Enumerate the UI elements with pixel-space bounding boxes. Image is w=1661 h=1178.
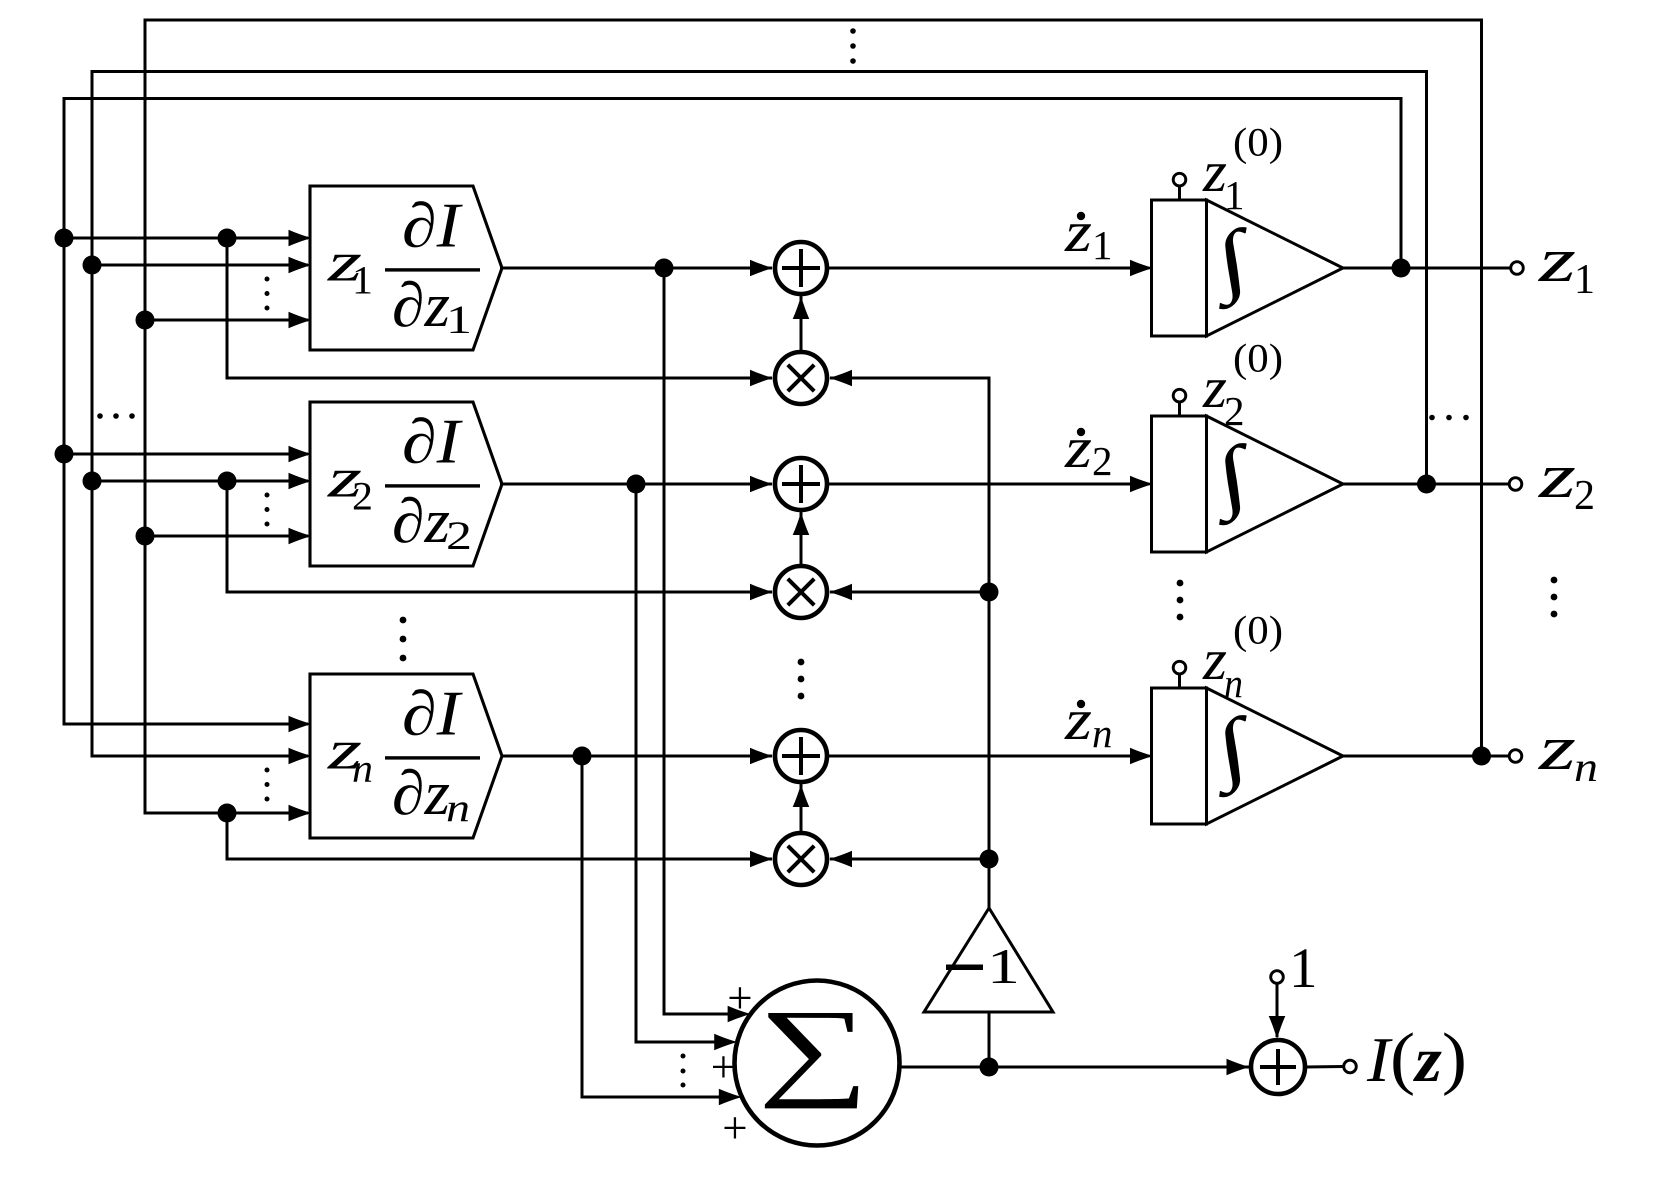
- cdots left side between feedback verticals: [97, 413, 103, 419]
- wire sum tap 1 down to summer: [664, 268, 739, 1014]
- svg-text:∂I: ∂I: [402, 407, 463, 477]
- svg-text:n: n: [1092, 710, 1113, 756]
- wire branch z2 into block F1 input 2: [92, 264, 308, 267]
- arrowhead into adder A0 top: [1269, 1016, 1286, 1039]
- svg-text:1: 1: [1224, 172, 1245, 218]
- wire Un output to terminal zn: [1343, 755, 1510, 758]
- junction dot summer output at inverter: [980, 1058, 999, 1077]
- junction dot z1 branch at row 1 input 1: [55, 229, 74, 248]
- wire branch z1 into block F2 input 1: [64, 453, 308, 456]
- svg-text:z: z: [1538, 440, 1577, 511]
- arrowhead into M2 right: [829, 584, 852, 601]
- arrowhead into block F2 input 2: [289, 473, 312, 490]
- wire from inverter up and into M1 right input: [830, 378, 989, 908]
- wire sum tap 2 down to summer: [636, 484, 725, 1042]
- wire M2 up to A2: [800, 512, 803, 566]
- svg-text:n: n: [1574, 745, 1598, 791]
- junction dot zn branch at row 1 input 3: [136, 311, 155, 330]
- arrowhead into multiplier M1 left: [750, 370, 773, 387]
- wire sum tap n down to summer: [582, 756, 730, 1097]
- adder A2 circle: [775, 458, 827, 510]
- wire A2 output to integrator U2: [828, 483, 1150, 486]
- initial condition terminal of U2: [1173, 389, 1186, 402]
- wire feedback z2: up from integrator output, across top, down left side into block Fn input 2: [92, 72, 1427, 757]
- wire branch zn into block F2 input 3: [145, 535, 308, 538]
- wire Mn up to An: [800, 784, 803, 833]
- junction dot inverter line at Mn row: [980, 850, 999, 869]
- vdots between Fn inputs: [265, 768, 270, 773]
- wire A1 output to integrator U1: [828, 267, 1150, 270]
- fraction bar in F2: [385, 484, 480, 487]
- arrowhead into adder A0 left: [1227, 1059, 1250, 1076]
- svg-text:n: n: [446, 785, 470, 830]
- terminal z2: [1509, 478, 1522, 491]
- svg-text:+: +: [722, 1103, 747, 1153]
- junction dot F2 output tap to sum: [627, 475, 646, 494]
- svg-text:1: 1: [987, 938, 1020, 994]
- multiplier M2 circle: [775, 566, 827, 618]
- vdots summer inputs: [681, 1054, 686, 1059]
- arrowhead into integrator Un: [1130, 748, 1153, 765]
- arrowhead into An bottom: [793, 784, 810, 807]
- terminal I(z) output: [1344, 1060, 1357, 1073]
- svg-text:z: z: [1538, 712, 1577, 783]
- arrowhead into multiplier Mn left: [750, 851, 773, 868]
- block F2: z2 dI/dz2 pentagon: [310, 402, 502, 566]
- junction dot U1 output feedback: [1392, 259, 1411, 278]
- arrowhead into A2 bottom: [793, 512, 810, 535]
- wire M1 up to A1: [800, 296, 803, 352]
- fraction bar in F1: [385, 268, 480, 271]
- wire branch into Mn right input: [830, 858, 989, 861]
- junction dot F1 output tap to sum: [655, 259, 674, 278]
- arrowhead into M1 right: [829, 370, 852, 387]
- arrowhead into block F1 input 3: [289, 312, 312, 329]
- arrowhead into block F1 input 1: [289, 230, 312, 247]
- multiplier M2 cross: [788, 579, 814, 605]
- arrowhead into adder A1 left: [750, 260, 773, 277]
- arrowhead into Mn right: [829, 851, 852, 868]
- svg-text:2: 2: [1092, 438, 1113, 484]
- junction dot z2 branch at row 1 input 2: [83, 256, 102, 275]
- fraction bar in Fn: [385, 756, 480, 759]
- multiplier Mn cross: [788, 846, 814, 872]
- label -1 in inverter: [946, 965, 983, 971]
- adder A1 plus sign: [782, 249, 820, 287]
- junction dot Un output feedback: [1472, 747, 1491, 766]
- initial condition terminal of U1: [1173, 173, 1186, 186]
- vdots between blocks F2 and Fn: [400, 617, 407, 624]
- wire branch z1 into block F1 input 1: [64, 237, 308, 240]
- multiplier Mn circle: [775, 833, 827, 885]
- arrowhead into summer input 3: [719, 1089, 742, 1106]
- svg-text:2: 2: [1224, 388, 1245, 434]
- summer S circle: [735, 981, 900, 1146]
- junction dot tap z1 to multiplier M1: [218, 229, 237, 248]
- wire branch zn into block F1 input 3: [145, 319, 308, 322]
- svg-text:∂I: ∂I: [402, 191, 463, 261]
- svg-text:z: z: [1064, 415, 1092, 480]
- terminal constant 1: [1271, 971, 1284, 984]
- terminal z1: [1511, 262, 1524, 275]
- svg-text:n: n: [1224, 660, 1243, 706]
- wire F1 output to adder A1: [500, 267, 772, 270]
- junction dot zn branch at row 2 input 3: [136, 527, 155, 546]
- svg-text:1: 1: [352, 258, 373, 303]
- arrowhead into adder An left: [750, 748, 773, 765]
- svg-text:2: 2: [446, 513, 472, 558]
- wire An output to integrator Un: [828, 755, 1150, 758]
- arrowhead feedback z2 into block Fn: [289, 748, 312, 765]
- multiplier M1 circle: [775, 352, 827, 404]
- terminal zn: [1509, 750, 1522, 763]
- vdots between adder rows 2 and n: [798, 659, 805, 666]
- arrowhead feedback zn into block Fn: [289, 805, 312, 822]
- arrowhead into multiplier M2 left: [750, 584, 773, 601]
- wire branch z2 into block F2 input 2: [92, 480, 308, 483]
- svg-text:I(z): I(z): [1366, 1020, 1467, 1097]
- vdots between F1 inputs: [265, 277, 270, 282]
- arrowhead into A1 bottom: [793, 296, 810, 319]
- arrowhead into integrator U1: [1130, 260, 1153, 277]
- svg-text:∂z: ∂z: [392, 270, 450, 340]
- wire U2 output to terminal z2: [1343, 483, 1510, 486]
- integrator U2 body: [1152, 416, 1207, 552]
- svg-text:∂I: ∂I: [402, 679, 463, 749]
- arrowhead into integrator U2: [1130, 476, 1153, 493]
- adder An circle: [775, 730, 827, 782]
- junction dot z1 branch at row 2 input 1: [55, 445, 74, 464]
- svg-text:2: 2: [352, 474, 373, 519]
- svg-text:+: +: [711, 1042, 736, 1092]
- svg-text:∂z: ∂z: [392, 758, 450, 828]
- arrowhead into block F2 input 1: [289, 446, 312, 463]
- svg-text:(0): (0): [1233, 336, 1283, 381]
- block Fn: zn dI/dzn pentagon: [310, 674, 502, 838]
- wire feedback z1: up from integrator output, across top, down left side into block Fn input 1: [64, 99, 1401, 725]
- wire Fn output to adder An: [501, 755, 772, 758]
- arrowhead feedback z1 into block Fn: [289, 716, 312, 733]
- wire constant 1 into adder A0: [1276, 983, 1279, 1037]
- svg-text:z: z: [1064, 199, 1092, 264]
- vdots between F2 inputs: [265, 493, 270, 498]
- vdots between integrators U2 and Un: [1177, 580, 1184, 587]
- block F1: z1 dI/dz1 pentagon: [310, 186, 502, 350]
- svg-text:1: 1: [1574, 257, 1595, 303]
- adder A0 circle: [1251, 1040, 1305, 1094]
- integrator Un body: [1152, 688, 1207, 824]
- svg-text:n: n: [352, 746, 373, 791]
- wire tap zn down into multiplier Mn left input: [227, 813, 772, 859]
- svg-text:+: +: [727, 973, 752, 1023]
- arrowhead into block F1 input 2: [289, 257, 312, 274]
- svg-text:1: 1: [1092, 222, 1113, 268]
- svg-text:(0): (0): [1233, 120, 1283, 165]
- vdots top centre between feedback lines: [850, 28, 856, 34]
- svg-text:1: 1: [446, 297, 472, 342]
- inverter G (-1) triangle: [924, 908, 1053, 1012]
- adder An plus sign: [782, 737, 820, 775]
- wire summer output to adder A0: [900, 1066, 1250, 1069]
- adder A1 circle: [775, 242, 827, 294]
- wire tap z1 down into multiplier M1 left input: [227, 238, 772, 378]
- junction dot tap z2 to multiplier M2: [218, 472, 237, 491]
- initial condition terminal of Un: [1173, 661, 1186, 674]
- junction dot tap zn to multiplier Mn: [218, 804, 237, 823]
- junction dot z2 branch at row 2 input 2: [83, 472, 102, 491]
- integrator U1 body: [1152, 200, 1207, 336]
- wire feedback zn: up from integrator output, across top, down left side into block Fn input 3: [145, 20, 1482, 813]
- arrowhead into block F2 input 3: [289, 528, 312, 545]
- multiplier M1 cross: [788, 365, 814, 391]
- arrowhead into summer input 2: [714, 1034, 737, 1051]
- svg-text:2: 2: [1574, 473, 1595, 519]
- arrowhead into summer input 1: [728, 1006, 751, 1023]
- svg-text:∑: ∑: [758, 988, 869, 1109]
- svg-text:z: z: [1064, 687, 1092, 752]
- wire inverter stem to summer output: [988, 1012, 991, 1067]
- adder A0 plus sign: [1260, 1049, 1296, 1085]
- svg-text:∂z: ∂z: [392, 486, 450, 556]
- wire branch into M2 right input: [830, 591, 989, 594]
- cdots top right between feedback lines: [1429, 415, 1435, 421]
- junction dot U2 output feedback: [1417, 475, 1436, 494]
- wire tap z2 down into multiplier M2 left input: [227, 481, 772, 592]
- arrowhead into adder A2 left: [750, 476, 773, 493]
- svg-text:1: 1: [1289, 937, 1318, 1000]
- svg-text:(0): (0): [1233, 608, 1283, 653]
- vdots right edge below z2: [1551, 577, 1558, 584]
- wire adder A0 output: [1305, 1065, 1344, 1069]
- adder A2 plus sign: [782, 465, 820, 503]
- wire U1 output to terminal z1: [1343, 267, 1511, 270]
- junction dot inverter line at M2 row: [980, 583, 999, 602]
- wire F2 output to adder A2: [500, 483, 772, 486]
- svg-text:z: z: [1538, 224, 1577, 295]
- junction dot Fn output tap to sum: [573, 747, 592, 766]
